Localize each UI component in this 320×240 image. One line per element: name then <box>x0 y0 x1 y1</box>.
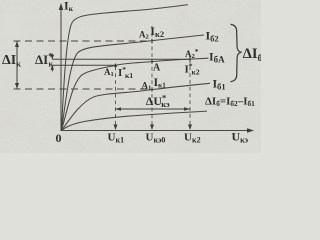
svg-text:ΔI: ΔI <box>35 52 48 67</box>
svg-text:0: 0 <box>56 131 62 145</box>
svg-text:А: А <box>153 63 161 74</box>
svg-text:к: к <box>49 60 54 69</box>
